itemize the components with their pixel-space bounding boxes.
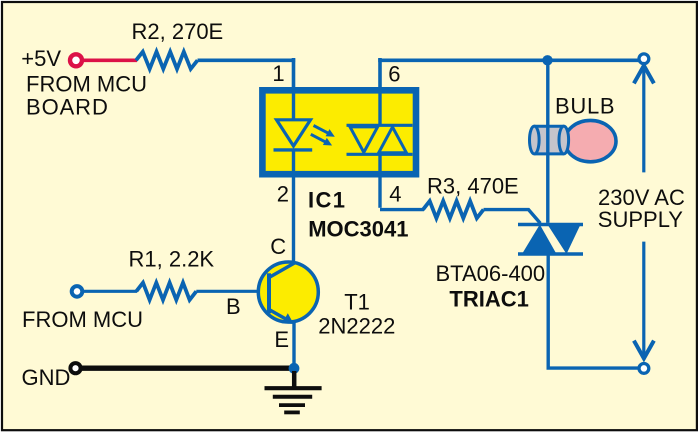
bulb cap left ellipse (530, 126, 540, 154)
svg-text:R3, 470E: R3, 470E (427, 173, 519, 198)
svg-text:C: C (270, 234, 286, 259)
LED of IC1 (277, 120, 311, 146)
wire through bulb cap (546, 126, 549, 155)
svg-text:+5V: +5V (21, 46, 61, 71)
phototriac wire pin4 side (378, 154, 381, 208)
wire emitter down (292, 322, 295, 366)
svg-text:2N2222: 2N2222 (318, 313, 395, 338)
LED cathode bar (274, 148, 313, 151)
phototriac left triangle (350, 127, 378, 152)
svg-text:IC1: IC1 (308, 188, 346, 213)
resistor R2 (136, 52, 198, 69)
AC shaft lower (642, 242, 645, 356)
phototriac right triangle (379, 127, 407, 153)
transistor T1 body (258, 262, 318, 322)
resistor R1 (136, 283, 196, 300)
svg-text:1: 1 (272, 61, 284, 86)
wire +5V to R2 (red) (84, 58, 137, 62)
AC top arrowhead up (634, 66, 654, 84)
light emission arrow 1 (314, 126, 335, 137)
triac right triangle (548, 225, 581, 255)
ground bar 2 (273, 395, 312, 399)
svg-text:BOARD: BOARD (26, 95, 109, 120)
svg-text:SUPPLY: SUPPLY (598, 207, 684, 232)
wire R3 to triac gate (484, 210, 541, 224)
svg-text:E: E (274, 327, 289, 352)
terminal FROM MCU (72, 286, 83, 297)
svg-text:FROM MCU: FROM MCU (22, 307, 143, 332)
svg-text:GND: GND (22, 365, 71, 390)
svg-text:FROM MCU: FROM MCU (26, 72, 147, 97)
wire pin1 drop (292, 58, 296, 93)
terminal +5V (red) (70, 54, 82, 66)
resistor R3 (423, 201, 484, 218)
triac left triangle (522, 225, 557, 255)
svg-text:TRIAC1: TRIAC1 (449, 286, 528, 311)
svg-text:6: 6 (388, 62, 400, 87)
svg-text:MOC3041: MOC3041 (308, 216, 408, 241)
svg-text:BTA06-400: BTA06-400 (436, 261, 546, 286)
light emission arrow 2 (311, 134, 332, 145)
LED cathode wire to pin2 and collector (292, 150, 295, 264)
phototriac bottom bar (347, 153, 413, 156)
node junction emitter-ground (289, 363, 300, 374)
transistor base bar (267, 273, 271, 313)
transistor emitter arrowhead (282, 313, 294, 324)
wire R1 to base (196, 290, 267, 293)
wire triac to bottom AC terminal (548, 252, 638, 368)
LED anode wire inside IC1 (292, 88, 295, 121)
wire pin6 riser (378, 58, 382, 93)
transistor collector diagonal (269, 263, 295, 278)
wire pin4 to R3 (380, 208, 424, 211)
svg-text:4: 4 (389, 182, 401, 207)
svg-text:T1: T1 (344, 290, 370, 315)
svg-text:BULB: BULB (555, 94, 615, 119)
bulb globe (565, 120, 616, 161)
wire GND bus (black) (82, 366, 294, 371)
svg-text:R1, 2.2K: R1, 2.2K (129, 247, 215, 272)
triac TRIAC1 top bar (518, 223, 583, 227)
triac TRIAC1 bottom bar (518, 252, 583, 256)
phototriac wire pin6 side (378, 91, 381, 125)
svg-text:R2, 270E: R2, 270E (132, 19, 224, 44)
AC bottom arrowhead down (634, 341, 654, 359)
wire terminal to R1 (84, 290, 138, 293)
AC shaft upper (642, 67, 645, 172)
bulb cap right ellipse (559, 126, 569, 154)
terminal AC top (639, 54, 649, 64)
bulb cap body (534, 126, 564, 154)
terminal GND (70, 363, 80, 373)
optocoupler IC1 MOC3041 body (262, 90, 416, 174)
ground bar 3 (279, 403, 305, 407)
ground bar 4 (284, 410, 300, 414)
svg-text:2: 2 (277, 182, 289, 207)
terminal AC bottom (639, 364, 649, 374)
wire pin6 to AC terminal (378, 58, 639, 62)
phototriac top bar (347, 124, 413, 127)
wire bulb feed (546, 60, 549, 223)
wire R2 to pin1 (198, 58, 296, 62)
ground bar 1 (265, 386, 322, 390)
node junction bulb (542, 55, 552, 65)
svg-text:B: B (226, 294, 241, 319)
bulb cap bottom edge (534, 152, 564, 155)
ground stub (292, 371, 297, 388)
transistor emitter diagonal (269, 310, 289, 321)
bulb cap top edge (534, 125, 564, 128)
